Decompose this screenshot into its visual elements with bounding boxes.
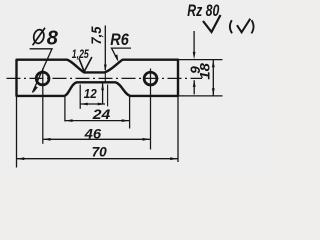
small check symbol <box>237 19 250 33</box>
svg-text:70: 70 <box>92 144 108 159</box>
dimension 12 line with arrows <box>81 103 106 105</box>
hole right vertical centerline / extension to 46 dim <box>150 69 152 150</box>
dimension 24 line with arrows <box>65 120 129 122</box>
svg-text:1,25: 1,25 <box>72 49 89 61</box>
dimension 24 left extension line <box>64 97 66 122</box>
svg-text:46: 46 <box>84 126 102 142</box>
parenthesis close <box>251 20 253 33</box>
hole right (ring) <box>144 72 157 85</box>
dimension 9 lower segment with up arrow <box>193 80 195 94</box>
extension of bottom edge to the right <box>178 95 223 97</box>
label phi8 diameter symbol <box>32 28 45 46</box>
leader line for phi8 <box>30 49 52 93</box>
paper background <box>0 0 275 173</box>
dimension 12 right extension line <box>107 85 109 107</box>
centerline (dash-dot horizontal axis) <box>7 77 203 79</box>
hole left vertical centerline / extension to 46 dim <box>42 69 44 144</box>
extension of top edge to the right <box>178 59 223 61</box>
opposing up arrow below arch flat <box>102 83 104 103</box>
part outline (flat specimen, top notch and bottom arch) <box>17 60 179 96</box>
svg-text:18: 18 <box>198 63 213 80</box>
svg-text:24: 24 <box>92 106 111 122</box>
svg-text:7,5: 7,5 <box>89 26 104 44</box>
svg-text:8: 8 <box>47 28 59 50</box>
dimension 46 line with arrows <box>43 138 150 140</box>
leader line for R6 <box>112 48 132 59</box>
dimension 9 upper segment with down arrow <box>193 31 195 53</box>
dimension 70 line with arrows <box>17 158 178 160</box>
svg-text:R6: R6 <box>110 30 129 49</box>
dimension 24 right extension line <box>129 97 131 129</box>
leader arrowhead for phi8 <box>33 86 37 93</box>
dimension 12 left extension line <box>79 85 81 109</box>
extension of right edge down to 70 dim <box>177 96 179 162</box>
leader arrowhead for R6 <box>115 55 119 63</box>
dimension 7,5 line with down arrow <box>104 26 106 71</box>
surface check mark on notch <box>79 57 92 72</box>
extension of left edge down to 70 dim <box>16 96 18 167</box>
svg-text:Rz 80: Rz 80 <box>187 2 220 20</box>
roughness check symbol <box>203 15 221 32</box>
svg-text:12: 12 <box>84 86 98 101</box>
dimension 7,5 line continuation through web <box>104 73 106 82</box>
parenthesis open <box>230 20 232 33</box>
hole left (ring) <box>36 72 49 85</box>
dimension 18 line with arrows <box>212 60 214 96</box>
